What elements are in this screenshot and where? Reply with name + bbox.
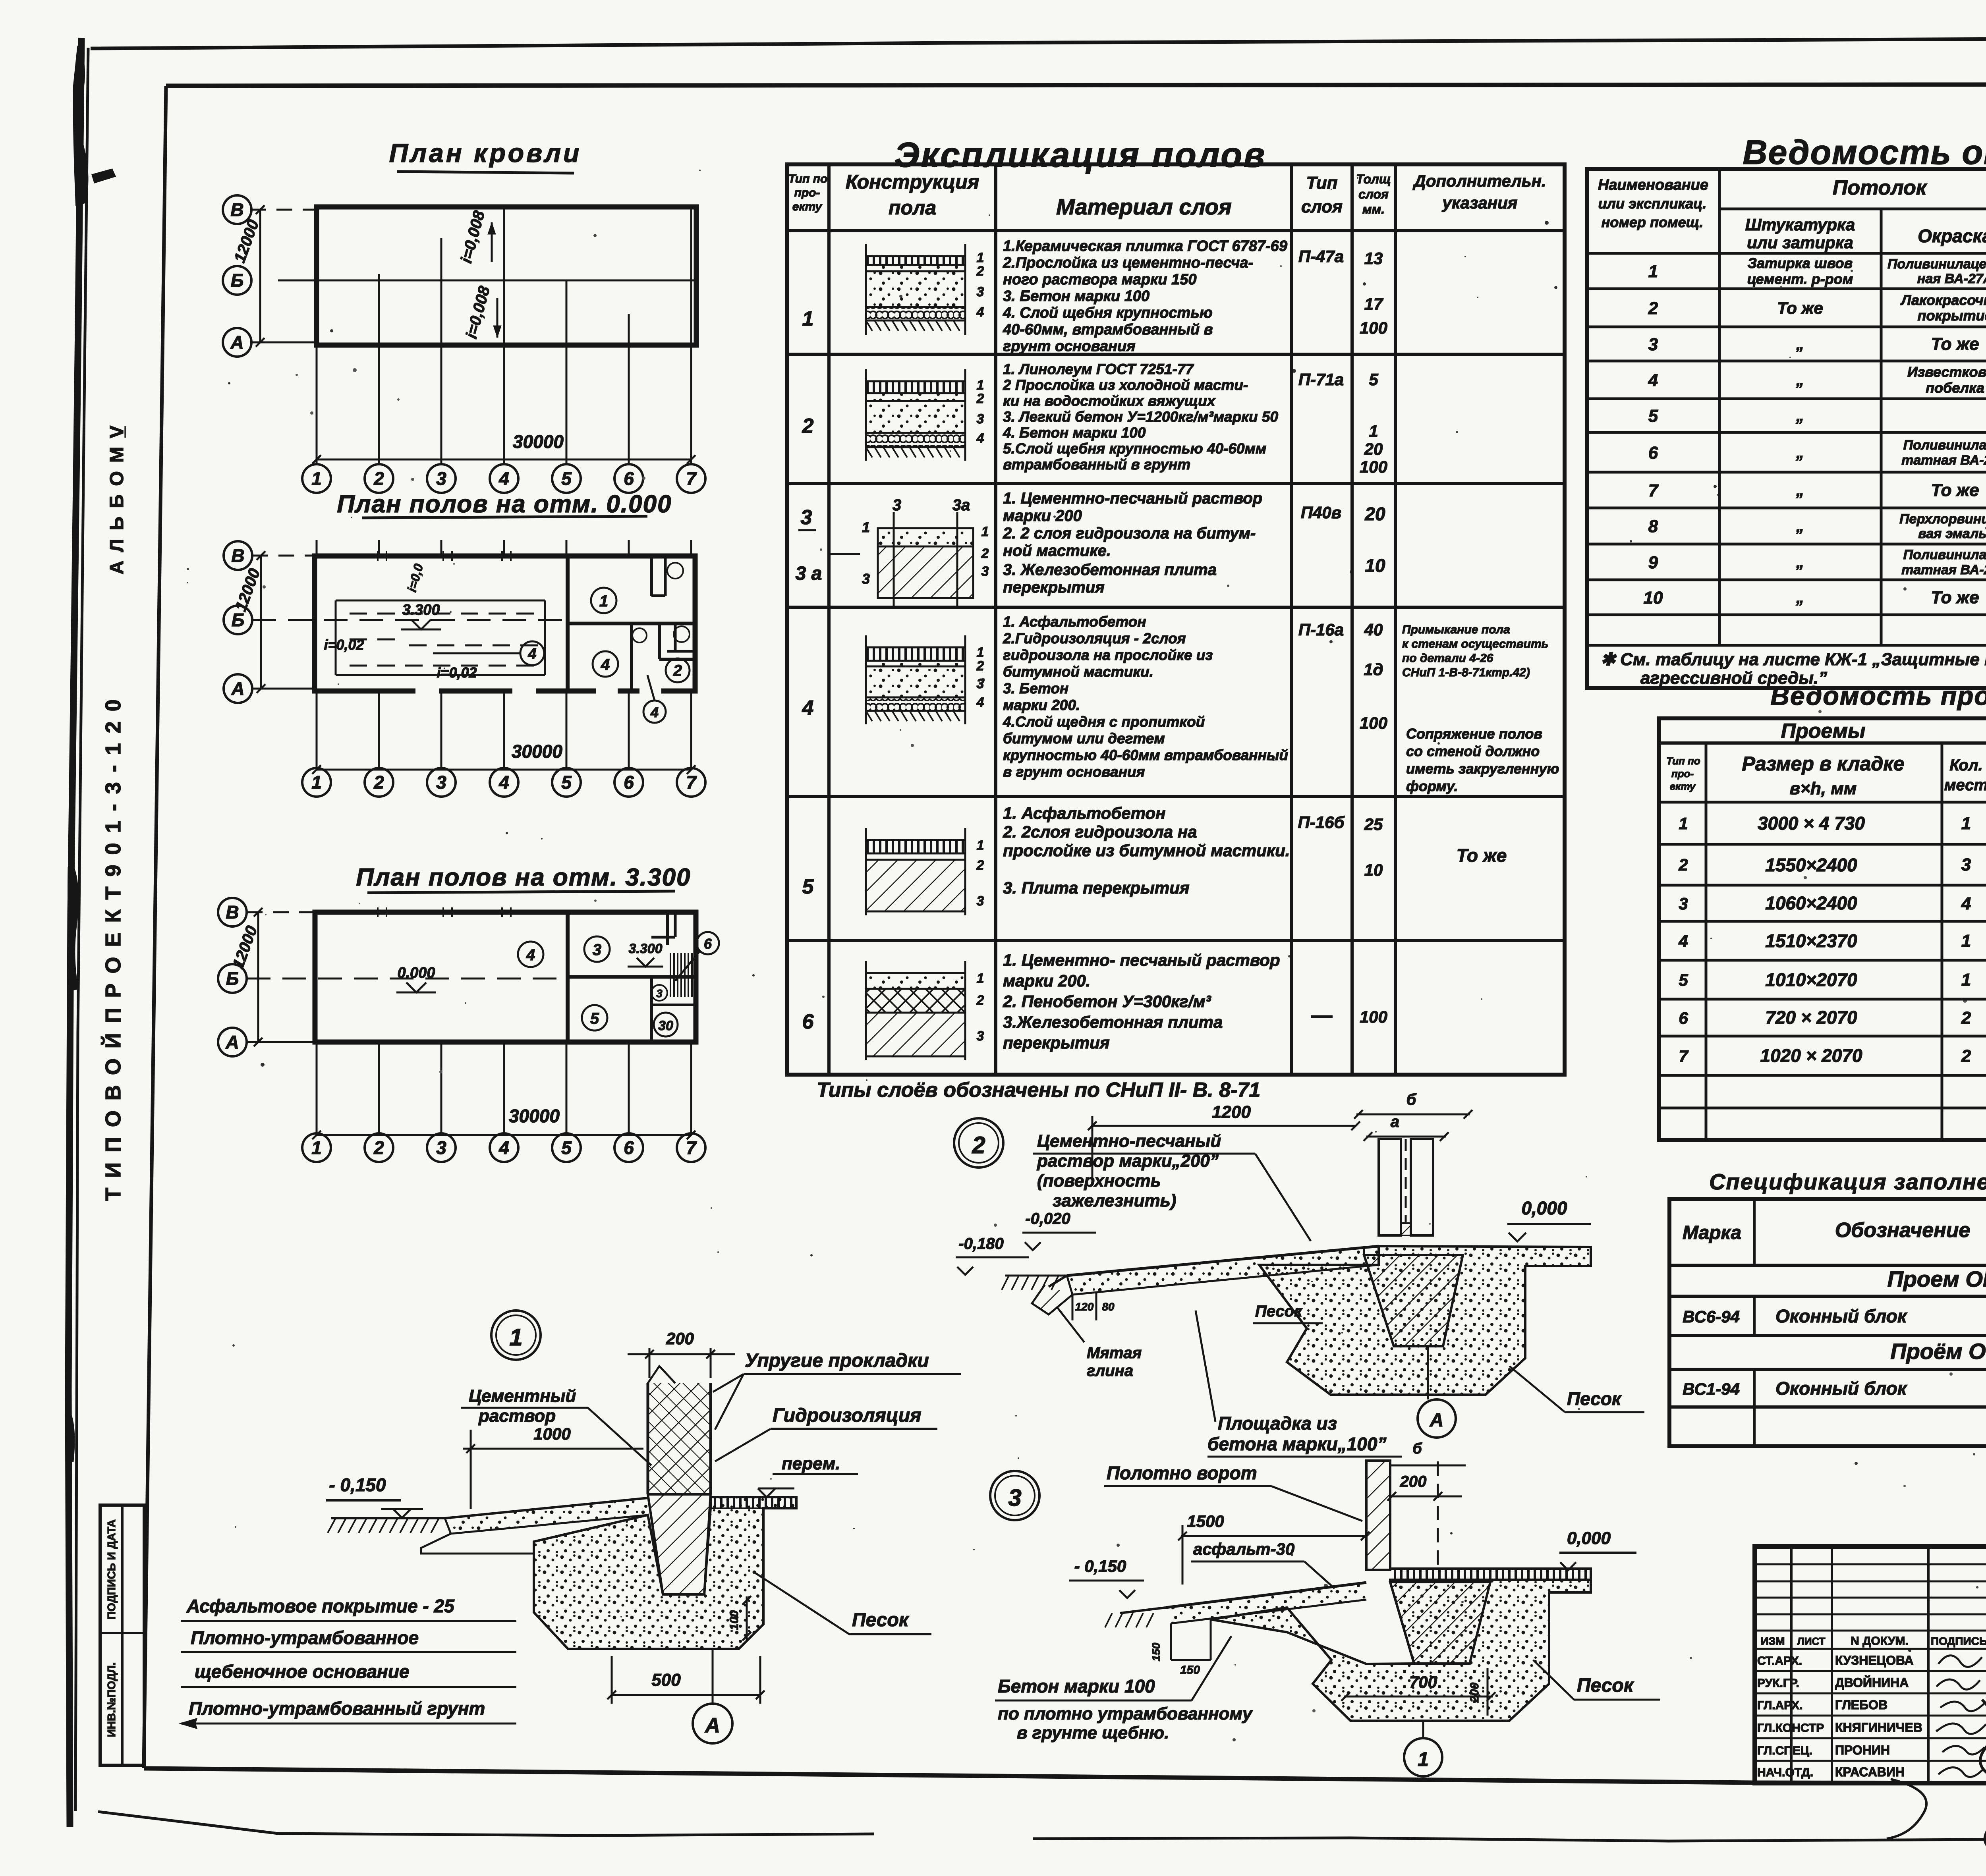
svg-text:2: 2 [673,662,682,679]
svg-text:То же: То же [1457,845,1507,866]
svg-text:2 Прослойка из холодной масти-: 2 Прослойка из холодной масти- [1003,377,1248,393]
plan0 column lines [317,540,691,770]
svg-text:1060×2400: 1060×2400 [1765,893,1857,913]
svg-text:5: 5 [1369,370,1378,389]
svg-text:4: 4 [526,946,535,964]
svg-text:9: 9 [1648,553,1658,572]
svg-text:4: 4 [802,697,814,720]
svg-text:0,000: 0,000 [1567,1529,1611,1548]
svg-text:Б: Б [231,270,244,291]
svg-text:ЛИСТ: ЛИСТ [1797,1635,1826,1647]
svg-text:Оконный блок: Оконный блок [1775,1306,1908,1326]
svg-text:(поверхность: (поверхность [1037,1171,1161,1191]
floor type 3 thickness values [1364,504,1385,576]
svg-text:3: 3 [977,894,984,909]
svg-text:Проемы: Проемы [1781,720,1866,743]
svg-text:5: 5 [561,1137,572,1158]
svg-text:„: „ [1796,371,1804,389]
detail 1 legend compacted soil [181,1698,516,1728]
svg-text:3. Легкий бетон У=1200кг/м³мар: 3. Легкий бетон У=1200кг/м³марки 50 [1003,409,1278,425]
detail 1 label sand [755,1573,931,1634]
svg-text:150: 150 [1180,1664,1200,1677]
plan0 level 3.300 mark [401,602,441,629]
floor plan 0.000 outline [315,556,695,691]
svg-text:1: 1 [802,307,814,330]
svg-text:асфальт-30: асфальт-30 [1193,1540,1294,1558]
floor type 4 construction sketch [866,635,984,724]
svg-text:1: 1 [1961,814,1971,833]
svg-text:3: 3 [977,411,984,427]
svg-text:1: 1 [311,1137,322,1158]
svg-text:П-47а: П-47а [1298,247,1344,266]
svg-text:А: А [1430,1410,1444,1431]
svg-text:0,000: 0,000 [1521,1198,1567,1218]
svg-text:а: а [1391,1113,1399,1131]
detail 1 legend rubble base [181,1661,516,1687]
svg-text:100: 100 [1360,1007,1387,1026]
svg-text:ПОДПИСЬ И ДАТА: ПОДПИСЬ И ДАТА [105,1519,118,1619]
svg-text:30000: 30000 [512,741,562,762]
plan33 axis circles [218,898,568,1056]
svg-text:Материал слоя: Материал слоя [1056,194,1232,219]
svg-text:100: 100 [1360,457,1387,476]
detail 1 dim 100 vertical [728,1596,751,1641]
detail 3 dim 1500 [1178,1512,1370,1585]
svg-text:1: 1 [1648,262,1658,281]
svg-text:-0,020: -0,020 [1025,1210,1070,1228]
svg-text:В: В [226,902,239,923]
detail 2 level -0.180 [956,1235,1029,1275]
svg-text:1: 1 [977,250,984,265]
svg-text:Дополнительн.: Дополнительн. [1412,172,1546,190]
svg-text:3а: 3а [952,496,970,514]
plan0 room circle 4 below [643,675,666,723]
floor type 5 thickness values [1364,815,1383,879]
svg-text:30000: 30000 [509,1106,560,1126]
svg-text:7: 7 [686,1137,697,1158]
svg-text:6: 6 [624,1137,634,1158]
svg-text:1: 1 [981,524,989,539]
svg-text:НАЧ.ОТД.: НАЧ.ОТД. [1757,1766,1813,1779]
finish table headers [1598,174,1986,252]
svg-text:1500: 1500 [1187,1512,1224,1531]
detail 1 wall footing [648,1494,711,1594]
svg-text:или экспликац.: или экспликац. [1598,195,1707,212]
svg-text:5: 5 [590,1010,599,1027]
paper bottom edge [98,1812,874,1835]
plan0 top wall window marks [378,551,511,561]
detail 3 label sand [1533,1660,1660,1700]
floor type 6 construction sketch [866,961,984,1060]
svg-text:битумом или дегтем: битумом или дегтем [1003,730,1165,747]
svg-text:3: 3 [1679,894,1688,913]
svg-text:80: 80 [1102,1301,1115,1313]
svg-text:зажелезнить): зажелезнить) [1053,1191,1176,1210]
svg-text:3: 3 [436,772,446,793]
roof plan axis line B [278,280,696,282]
svg-text:5: 5 [561,772,572,793]
plan33 stairs hatch [670,953,692,997]
svg-text:17: 17 [1364,295,1383,313]
finish table footnote [1601,650,1986,688]
svg-text:ной мастике.: ной мастике. [1003,542,1111,560]
svg-text:Площадка из: Площадка из [1218,1413,1337,1434]
svg-text:1. Цементно- песчаный раствор: 1. Цементно- песчаный раствор [1003,951,1280,969]
detail 1 label perem [758,1454,858,1497]
svg-text:То же: То же [1777,299,1823,317]
svg-text:ПОДПИСЬ: ПОДПИСЬ [1931,1635,1986,1647]
svg-text:1.Керамическая плитка ГОСТ 678: 1.Керамическая плитка ГОСТ 6787-69 [1003,238,1287,255]
svg-text:перекрытия: перекрытия [1003,579,1105,596]
svg-text:40: 40 [1364,620,1383,639]
floor type 2 construction sketch [866,369,984,461]
svg-text:5.Слой щебня крупностью 40-60м: 5.Слой щебня крупностью 40-60мм [1003,440,1266,457]
svg-text:1: 1 [1418,1748,1429,1770]
svg-text:Типы слоёв обозначены по СН: Типы слоёв обозначены по СНиП II- В. 8-7… [817,1079,1260,1102]
svg-text:покрытие: покрытие [1918,307,1986,324]
svg-text:2: 2 [976,391,984,406]
svg-text:номер помещ.: номер помещ. [1602,214,1704,230]
svg-text:Б: Б [226,968,239,989]
detail 1 label waterproofing [715,1405,937,1461]
svg-text:1: 1 [509,1324,522,1351]
svg-text:2: 2 [802,415,814,438]
plan0 room circle 2 [666,658,690,682]
svg-text:1. Линолеум ГОСТ 7251-77: 1. Линолеум ГОСТ 7251-77 [1003,361,1194,377]
plan33 column lines [317,1042,691,1134]
svg-text:1000: 1000 [533,1424,570,1443]
svg-text:8: 8 [1648,517,1658,536]
svg-text:i=0,02: i=0,02 [437,664,477,681]
svg-text:3. Железобетонная плита: 3. Железобетонная плита [1003,561,1217,579]
detail 1 legend compacted [181,1627,516,1652]
plan33 level 0.000 [396,965,436,992]
svg-text:4: 4 [650,704,659,720]
svg-text:втрамбованный в грунт: втрамбованный в грунт [1003,456,1190,473]
detail 3 right floor slab [1390,1569,1591,1580]
svg-text:Кол.: Кол. [1949,757,1983,774]
svg-text:со стеной должно: со стеной должно [1406,743,1540,759]
svg-text:Поливинилацетат-: Поливинилацетат- [1887,257,1986,272]
svg-text:2. 2 слоя гидроизола на битум-: 2. 2 слоя гидроизола на битум- [1003,525,1256,542]
svg-text:2.Гидроизоляция - 2слоя: 2.Гидроизоляция - 2слоя [1003,630,1186,647]
plan0 interior wall vertical axis5 [566,556,570,691]
window spec row VS6-94 [1683,1306,1986,1327]
svg-text:вая эмаль*: вая эмаль* [1918,526,1986,541]
svg-text:„: „ [1796,517,1804,535]
svg-text:4. Бетон марки 100: 4. Бетон марки 100 [1003,425,1146,441]
plan0 extra partitions [651,556,695,651]
roof plan outline [317,207,696,345]
svg-text:марки 200.: марки 200. [1003,971,1090,990]
svg-text:Цементный: Цементный [469,1386,576,1406]
svg-text:Асфальтовое покрытие - 25: Асфальтовое покрытие - 25 [186,1596,455,1616]
svg-text:4: 4 [1961,894,1971,913]
svg-text:1: 1 [311,772,322,793]
detail 3 column footing [1390,1582,1490,1664]
plan33 interior wall horizontal [568,975,696,979]
detail 3 bubble [990,1471,1039,1520]
detail 1 label elastic pads [713,1350,961,1430]
svg-text:КРАСАВИН: КРАСАВИН [1835,1765,1905,1779]
svg-text:гидроизола на прослойке из: гидроизола на прослойке из [1003,647,1213,663]
svg-text:4. Слой щебня крупностью: 4. Слой щебня крупностью [1003,305,1213,321]
svg-text:100: 100 [1360,318,1387,337]
svg-text:про-: про- [794,186,820,199]
svg-text:3.Железобетонная плита: 3.Железобетонная плита [1003,1013,1223,1031]
detail 3 section mark 1 [1404,1721,1442,1776]
detail 1 label cement mortar [461,1386,651,1465]
svg-text:Окраска: Окраска [1918,226,1986,246]
plan33 interior wall vertical [566,912,570,1042]
svg-text:4.Слой щедня с пропиткой: 4.Слой щедня с пропиткой [1003,714,1205,730]
svg-text:Размер в кладке: Размер в кладке [1742,753,1905,775]
roof plan 12000 dimension [231,205,265,347]
svg-text:✱ См. таблицу на листе КЖ-1: ✱ См. таблицу на листе КЖ-1 „Защитные ме… [1601,650,1986,669]
svg-text:3.300: 3.300 [628,941,662,956]
detail 2 dims a b [1354,1091,1472,1141]
svg-text:7: 7 [686,772,697,793]
svg-text:То же: То же [1931,481,1979,500]
detail 3 dim 700 [1341,1673,1495,1701]
plan0 interior wall horizontal [568,622,695,625]
detail 1 ground line and hatch [328,1518,445,1533]
svg-text:раствор: раствор [478,1406,556,1426]
svg-text:2: 2 [1961,1046,1971,1066]
svg-text:Штукатурка: Штукатурка [1745,215,1855,234]
svg-text:2.Прослойка из цементно-песча-: 2.Прослойка из цементно-песча- [1003,255,1253,271]
svg-text:П40в: П40в [1301,503,1341,522]
svg-text:СНиП 1-В-8-71ктр.42): СНиП 1-В-8-71ктр.42) [1402,666,1530,679]
detail 2 section mark A [1418,1346,1456,1438]
svg-text:5: 5 [802,875,814,898]
svg-text:План полов на отм. 3.300: План полов на отм. 3.300 [356,864,691,891]
svg-text:Марка: Марка [1683,1222,1741,1243]
svg-text:- 0,150: - 0,150 [1074,1557,1126,1575]
svg-text:10: 10 [1364,861,1383,879]
svg-text:3: 3 [436,468,446,489]
svg-text:2: 2 [373,468,384,489]
svg-text:1: 1 [977,838,984,853]
detail 2 level 0.000 [1507,1198,1591,1241]
svg-text:200: 200 [1468,1683,1481,1703]
svg-text:ного раствора марки 150: ного раствора марки 150 [1003,271,1197,288]
plan33 12000 dimension [229,908,263,1046]
svg-text:4: 4 [498,772,509,793]
svg-text:екту: екту [1670,780,1696,792]
svg-text:4: 4 [976,695,984,710]
svg-text:или затирка: или затирка [1747,233,1853,252]
svg-text:ки на водостойких вяжущих: ки на водостойких вяжущих [1003,393,1216,409]
svg-text:3: 3 [656,987,663,1000]
detail 3 road surface [1105,1583,1366,1677]
svg-text:План полов на отм. 0.000: План полов на отм. 0.000 [337,490,672,518]
plan33 level 3.300 [628,941,663,967]
svg-text:3: 3 [862,571,870,587]
svg-text:1: 1 [1369,422,1378,440]
svg-text:4: 4 [976,431,984,446]
svg-text:1: 1 [599,593,608,610]
svg-text:татная ВА-27А: татная ВА-27А [1901,453,1986,468]
plan0 room circle 4 leader [433,641,544,665]
svg-text:„: „ [1796,336,1804,353]
plan0 room circle 1 [591,588,616,613]
svg-text:500: 500 [651,1670,681,1690]
svg-text:б: б [1406,1091,1417,1108]
svg-text:720 × 2070: 720 × 2070 [1765,1007,1857,1028]
svg-text:щебеночное основание: щебеночное основание [195,1661,410,1682]
plan33 top wall window marks [378,907,511,917]
title block outline [1755,1546,1986,1783]
svg-text:5: 5 [561,468,572,489]
detail 1 floor right of wall [711,1497,796,1508]
svg-text:Песок: Песок [852,1610,910,1631]
detail 3 gate leaf [1366,1461,1390,1570]
svg-text:ДВОЙНИНА: ДВОЙНИНА [1835,1675,1909,1690]
plan0 column circle leaders [317,691,691,768]
svg-text:в грунт основания: в грунт основания [1003,764,1145,780]
explication table grid [787,164,1565,1075]
svg-text:3: 3 [1961,855,1971,874]
svg-text:3: 3 [893,496,901,514]
svg-text:10: 10 [1365,555,1385,576]
svg-text:„: „ [1796,554,1804,571]
svg-text:А Л Ь Б О М V̲: А Л Ь Б О М V̲ [106,424,128,575]
svg-text:ВС6-94: ВС6-94 [1683,1307,1740,1326]
svg-text:татная ВА-27А: татная ВА-27А [1901,562,1986,577]
svg-text:грунт основания: грунт основания [1003,338,1136,355]
svg-text:20: 20 [1364,440,1383,458]
detail 1 dimension 200 [628,1329,735,1378]
svg-text:слоя: слоя [1301,197,1343,216]
detail 1 legend asphalt [181,1596,516,1621]
svg-text:1: 1 [977,378,984,393]
svg-text:1: 1 [1679,814,1688,833]
svg-text:П-71а: П-71а [1298,370,1344,389]
svg-text:ГЛ.КОНСТР: ГЛ.КОНСТР [1757,1722,1824,1735]
roof plan column circles [302,464,705,493]
floor plan 0.000 title [337,490,672,518]
svg-text:Поливинилаце-: Поливинилаце- [1903,547,1986,562]
svg-text:4: 4 [601,656,610,674]
svg-text:2: 2 [1648,299,1658,318]
svg-text:в×h, мм: в×h, мм [1790,779,1857,798]
paper left edge [68,38,81,1827]
svg-text:4: 4 [976,305,984,320]
door table headers [1666,720,1986,798]
svg-text:40-60мм, втрамбованный в: 40-60мм, втрамбованный в [1003,321,1213,338]
title block signature rows [1757,1653,1922,1779]
svg-text:бетона марки„100”: бетона марки„100” [1207,1434,1386,1454]
roof plan axis circles [223,195,251,357]
svg-text:мест: мест [1944,776,1986,794]
svg-text:3: 3 [1008,1484,1021,1511]
svg-text:2: 2 [976,658,984,674]
svg-text:СТ.АРХ.: СТ.АРХ. [1757,1654,1802,1668]
svg-text:Проем ОК-1 ( мест-4): Проем ОК-1 ( мест-4) [1887,1266,1986,1291]
svg-text:То же: То же [1931,588,1979,607]
plan0 bottom wall door gaps [415,686,661,696]
svg-text:Песок: Песок [1567,1388,1622,1409]
detail 3 level -0.150 [1069,1557,1144,1598]
svg-text:3: 3 [981,564,989,579]
floor type 2 thickness values [1360,370,1387,476]
svg-text:Б: Б [232,610,245,630]
svg-text:Плотно-утрамбованное: Плотно-утрамбованное [191,1627,419,1648]
svg-text:Плотно-утрамбованный грунт: Плотно-утрамбованный грунт [189,1698,485,1719]
detail 3 label asphalt [1191,1540,1335,1588]
plan33 partitions [651,912,696,1042]
detail 1 bubble [491,1310,541,1360]
margin stamp boxes [100,1505,144,1765]
svg-text:3. Плита перекрытия: 3. Плита перекрытия [1003,878,1190,897]
svg-text:ГЛЕБОВ: ГЛЕБОВ [1835,1698,1887,1712]
floor type 6 layer type dash [1311,1015,1333,1018]
svg-text:1510×2370: 1510×2370 [1765,930,1857,951]
svg-text:100: 100 [728,1610,741,1630]
svg-text:РУК.ГР.: РУК.ГР. [1757,1677,1799,1690]
svg-text:6: 6 [624,468,634,489]
svg-text:N ДОКУМ.: N ДОКУМ. [1851,1635,1909,1648]
svg-text:„: „ [1796,407,1804,425]
svg-text:1: 1 [977,645,984,660]
detail 3 sand pit [1211,1580,1591,1721]
plan33 room circle 3 [584,936,610,962]
detail 2 level -0.020 [1022,1210,1096,1250]
svg-text:План кровли: План кровли [389,138,582,168]
svg-text:Толщ: Толщ [1356,172,1391,186]
svg-text:ГЛ.СПЕЦ.: ГЛ.СПЕЦ. [1757,1744,1812,1757]
svg-text:20: 20 [1364,504,1385,524]
svg-text:про-: про- [1671,768,1694,780]
svg-text:1020 × 2070: 1020 × 2070 [1760,1045,1862,1066]
svg-text:ПРОНИН: ПРОНИН [1835,1743,1890,1757]
svg-text:7: 7 [1679,1047,1688,1065]
svg-text:7: 7 [1648,481,1659,500]
svg-text:Ведомость проемов ворот: Ведомость проемов ворот и дверей [1770,681,1986,710]
svg-text:слоя: слоя [1358,187,1389,201]
svg-text:цемент. р-ром: цемент. р-ром [1747,271,1853,287]
svg-text:4: 4 [498,1137,509,1158]
scan speckles [187,100,1986,1741]
floor type 5 construction sketch [866,828,984,915]
svg-text:марки 200: марки 200 [1003,507,1082,525]
svg-text:Примыкание пола: Примыкание пола [1402,623,1510,636]
svg-text:2: 2 [373,1137,384,1158]
detail 3 level 0.000 [1559,1529,1636,1570]
svg-text:Гидроизоляция: Гидроизоляция [773,1405,921,1426]
svg-text:Поливинилаце-: Поливинилаце- [1903,438,1986,453]
detail 2 label sand right [1509,1366,1644,1412]
svg-text:4: 4 [498,468,509,489]
svg-text:3 а: 3 а [796,563,822,584]
svg-text:Спецификация заполнения ок: Спецификация заполнения оконных проёмов [1709,1169,1986,1194]
plan33 30000 dimension [312,1106,695,1139]
svg-text:2: 2 [1678,855,1688,874]
svg-text:Лакокрасочное: Лакокрасочное [1900,292,1986,308]
svg-text:пола: пола [889,197,936,219]
roof slope label i=0.008 lower [463,284,501,340]
svg-text:5: 5 [1648,406,1658,426]
svg-text:к стенам осуществить: к стенам осуществить [1402,637,1548,650]
svg-text:3: 3 [977,1029,984,1044]
detail 1 sand pit [534,1497,796,1649]
svg-text:3: 3 [1648,335,1658,354]
plan33 room circle 4 [518,942,543,967]
svg-text:1: 1 [977,971,984,986]
svg-text:Наименование: Наименование [1598,177,1708,193]
svg-text:3.300: 3.300 [402,602,440,618]
